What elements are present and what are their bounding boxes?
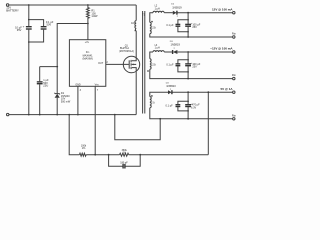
wire FB tap from 5V rail <box>207 92 209 155</box>
wire ground rail <box>9 114 136 116</box>
svg-text:23t: 23t <box>152 63 156 66</box>
body lead arrow <box>133 63 137 65</box>
node FB tap on 5V rail <box>207 91 209 93</box>
transformer secondary winding S2 <box>150 52 153 59</box>
wire IC VFB pin down <box>94 86 96 154</box>
svg-text:GND: GND <box>75 83 81 86</box>
node C1 on ground rail <box>28 114 30 116</box>
wire FB divider left leg <box>69 115 79 155</box>
node C2 top tee <box>28 19 30 21</box>
node zener tee <box>56 66 58 68</box>
inductor L3 1uH <box>153 51 164 52</box>
terminal Rtn stage3 <box>233 118 235 120</box>
resistor R3 360k <box>120 153 129 156</box>
node bracket top stage1 <box>187 19 189 21</box>
svg-text:12V @ 100 mA: 12V @ 100 mA <box>212 7 233 11</box>
svg-text:0.1 µF: 0.1 µF <box>166 24 174 27</box>
wire D2 to +12V terminal <box>177 12 232 14</box>
svg-text:50V: 50V <box>47 23 52 27</box>
svg-text:1N5819: 1N5819 <box>172 6 182 10</box>
resistor R1 <box>87 5 90 24</box>
node C2 bottom tee <box>28 41 30 43</box>
node S3 filter top <box>187 91 189 93</box>
wire IC OUT to gate <box>106 63 129 65</box>
svg-text:−12V @ 100 mA: −12V @ 100 mA <box>210 47 233 51</box>
op-amp U1 (regulator IC1 MAX641) box <box>69 40 105 87</box>
svg-text:5V @ 1A: 5V @ 1A <box>220 87 233 91</box>
wire L2 to D2 <box>164 12 173 14</box>
node top rail / R1 <box>87 4 89 6</box>
node S1 filter top <box>187 12 189 14</box>
transformer secondary winding S3 <box>150 92 168 96</box>
node bracket top stage2 <box>187 59 189 61</box>
svg-text:Rtn: Rtn <box>232 32 237 35</box>
svg-text:0.1 µF: 0.1 µF <box>166 104 174 107</box>
node bracket bottom stage2 <box>187 71 189 73</box>
gate bar <box>128 60 130 68</box>
drain lead <box>132 57 136 61</box>
node FB divider on ground rail <box>68 114 70 116</box>
svg-text:23t: 23t <box>152 27 156 30</box>
capacitor 100uF 25V stage2 <box>187 52 189 64</box>
node GND pin on rail <box>77 114 79 116</box>
wire ground loop to 5V return <box>115 115 160 140</box>
wire IC top supply pin <box>87 24 89 40</box>
terminal 12V output <box>233 12 235 14</box>
node loop on 5V return rail <box>159 118 161 120</box>
wire primary to drain <box>135 31 137 57</box>
capacitor 0.1uF stage1 branch <box>178 20 188 24</box>
capacitor C2 0.1uF 50V <box>41 26 47 28</box>
source lead <box>132 68 136 72</box>
svg-text:+: + <box>23 24 25 28</box>
wire FB line right <box>129 154 209 156</box>
svg-text:6.3V: 6.3V <box>191 106 196 109</box>
transformer T1 core <box>142 11 144 114</box>
svg-text:0.1 µF: 0.1 µF <box>166 64 174 67</box>
svg-text:(MOTOROLA): (MOTOROLA) <box>119 50 134 53</box>
capacitor 0.1uF stage3 branch <box>178 101 188 104</box>
svg-text:25V: 25V <box>192 26 197 29</box>
node S2 filter top <box>187 51 189 53</box>
svg-text:1 µH: 1 µH <box>155 7 160 10</box>
transformer secondary winding S1 <box>150 13 153 23</box>
terminal Rtn stage1 <box>233 36 235 38</box>
node 180pF right <box>139 154 141 156</box>
wire D4 to 5V terminal <box>172 91 232 93</box>
inductor L2 1uH <box>153 11 164 12</box>
transformer T1 primary winding <box>135 5 137 21</box>
node 180pF left <box>108 154 110 156</box>
wire source to ground rail <box>135 72 137 115</box>
terminal +12V battery input <box>6 4 8 6</box>
phasing dot S1 <box>151 21 152 22</box>
capacitor C1 10uF 35V <box>28 5 30 26</box>
svg-text:BUZ71A: BUZ71A <box>120 47 129 50</box>
svg-text:1 µH: 1 µH <box>155 47 160 50</box>
svg-text:1N5819: 1N5819 <box>170 42 180 46</box>
node filter bottom stage1 <box>187 36 189 38</box>
terminal 5V output <box>233 91 235 93</box>
wire IC GND pin down <box>77 86 79 114</box>
zener D1 <box>56 67 58 94</box>
svg-text:35V: 35V <box>17 28 22 32</box>
wire D3 to -12V terminal <box>177 51 232 53</box>
phasing dot S2 <box>147 70 148 71</box>
transistor Q1 MOSFET circle <box>123 56 139 72</box>
wire tee to C3 <box>40 66 58 68</box>
capacitor 470uF 6.3V <box>187 92 189 104</box>
wire L3 to D3 <box>164 51 172 53</box>
capacitor 180pF loop <box>109 155 123 167</box>
svg-text:OUT: OUT <box>98 62 104 65</box>
capacitor 0.1uF stage2 branch <box>178 60 188 64</box>
svg-text:180 pF: 180 pF <box>120 161 128 164</box>
diode D3 1N5819 reversed <box>172 50 174 54</box>
resistor R2 100k <box>79 153 86 156</box>
node D1 on ground rail <box>56 114 58 116</box>
node bracket top stage3 <box>187 101 189 103</box>
wire C2 branch bottom <box>29 30 44 42</box>
node VFB pin on FB line <box>94 154 96 156</box>
svg-text:Rtn: Rtn <box>232 114 237 117</box>
svg-text:1N5823: 1N5823 <box>166 84 176 88</box>
svg-text:5t: 5t <box>153 102 155 105</box>
svg-text:(MAXIM): (MAXIM) <box>82 57 92 61</box>
node filter bottom stage2 <box>187 78 189 80</box>
capacitor C3 1uF 50V Z5U <box>39 67 41 82</box>
channel bar dashed <box>130 60 132 62</box>
wire node A to zener branch <box>57 24 88 67</box>
wire top +12V rail <box>9 4 136 6</box>
wire FB line middle <box>86 154 119 156</box>
phasing dot S3 <box>151 95 152 96</box>
svg-text:25V: 25V <box>192 66 197 69</box>
node top rail / C1 <box>28 4 30 6</box>
node bracket bottom stage3 <box>187 110 189 112</box>
svg-text:Rtn: Rtn <box>232 74 237 77</box>
svg-text:Z5U: Z5U <box>43 84 48 88</box>
terminal Rtn stage2 <box>233 77 235 79</box>
terminal -12V output <box>233 51 235 53</box>
wire C2 branch top <box>29 20 44 27</box>
node loop to 5V return on ground rail <box>114 114 116 116</box>
svg-text:1/4W: 1/4W <box>91 14 98 18</box>
node C3 on ground rail <box>39 114 41 116</box>
diode D2 1N5819 <box>173 11 177 15</box>
diode D4 1N5823 <box>168 90 172 94</box>
svg-text:500 mW: 500 mW <box>61 100 71 103</box>
svg-text:10t: 10t <box>131 22 135 25</box>
terminal ground input <box>7 113 9 115</box>
node A R1 bottom <box>87 23 89 25</box>
phasing dot primary <box>135 30 136 31</box>
node bracket bottom stage1 <box>187 31 189 33</box>
svg-text:BATTERY: BATTERY <box>6 8 19 12</box>
capacitor 100uF 25V stage1 <box>187 13 189 24</box>
node filter bottom stage3 <box>187 118 189 120</box>
